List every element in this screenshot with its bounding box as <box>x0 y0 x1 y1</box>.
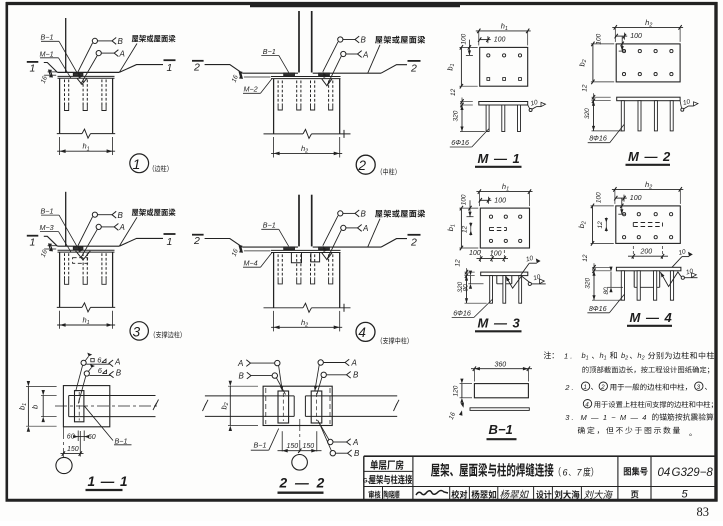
slot dimension 12 <box>605 218 608 223</box>
weld callout 10 upper M-4 <box>672 257 682 268</box>
plate B-1 right (2-2) <box>311 391 322 423</box>
dimension 100 top <box>480 39 491 41</box>
proofreader signature scrawl <box>500 490 529 499</box>
cell text single storey factory <box>370 460 403 470</box>
weld zigzag leader M-4 <box>661 272 682 287</box>
svg-text:M — 2: M — 2 <box>628 149 671 164</box>
svg-text:2: 2 <box>410 236 417 248</box>
svg-text:320: 320 <box>453 110 460 121</box>
hidden slot dashed <box>490 226 507 228</box>
svg-text:6: 6 <box>563 467 568 477</box>
svg-text:6Ф16: 6Ф16 <box>451 138 469 147</box>
hidden slot dashed <box>633 222 662 224</box>
svg-text:b1: b1 <box>445 63 456 70</box>
checker name <box>384 490 400 498</box>
section mark 1 right <box>164 59 176 61</box>
weld point B callout <box>338 211 343 216</box>
weld callout 10 lower M-3 <box>528 282 531 285</box>
anchor plate elevation <box>617 97 680 101</box>
svg-text:12: 12 <box>597 221 604 229</box>
svg-text:80: 80 <box>603 287 610 295</box>
dimension h2 <box>614 189 616 204</box>
anchor holes <box>622 50 625 53</box>
stud spacing dims 100 100 <box>479 250 481 262</box>
M-1 anchor plate plan outline <box>480 47 528 86</box>
left beam break mark <box>203 400 209 411</box>
column shaft outline <box>59 78 61 133</box>
dimension h1 <box>59 311 61 329</box>
svg-text:320: 320 <box>585 278 592 289</box>
weld callout 10 for M-2 <box>681 108 684 111</box>
svg-text:1: 1 <box>583 384 587 391</box>
svg-text:7: 7 <box>577 467 583 477</box>
section 1-1 column square <box>63 386 109 427</box>
svg-text:12: 12 <box>582 84 589 92</box>
dimension 100 upper-left <box>621 36 623 51</box>
plate B-1 left (2-2) <box>278 391 289 423</box>
detail 2 bubble <box>356 155 375 174</box>
M-4 anchor plate plan outline <box>616 206 681 244</box>
column break line <box>57 133 82 135</box>
svg-text:1: 1 <box>30 236 36 248</box>
dimension h1 <box>478 192 480 207</box>
slot dimension 12 <box>469 223 472 228</box>
dimension 80 rib depth M-4 <box>610 272 612 288</box>
svg-text:B−1: B−1 <box>115 436 128 445</box>
section mark 2 left <box>192 234 204 236</box>
weld callout B row <box>84 371 89 376</box>
right beam break mark <box>394 400 400 411</box>
svg-text:6: 6 <box>98 366 103 375</box>
slot dimension 200 <box>632 246 634 260</box>
dimension 60 60 <box>77 431 79 442</box>
notes line 4 <box>583 400 591 408</box>
column shaft outline <box>273 253 275 308</box>
svg-text:60: 60 <box>67 434 75 441</box>
svg-text:5: 5 <box>682 489 689 501</box>
svg-text:2: 2 <box>193 61 200 73</box>
cell text GJ roof truss-column connection <box>369 475 412 485</box>
svg-text:M−1: M−1 <box>40 49 54 58</box>
svg-text:320: 320 <box>584 108 591 119</box>
svg-text:G329−8: G329−8 <box>672 467 714 479</box>
svg-text:A: A <box>114 358 120 367</box>
svg-text:2: 2 <box>193 235 200 247</box>
detail 4 caption (braced center column) <box>381 337 409 344</box>
svg-text:B−1: B−1 <box>489 422 513 437</box>
weld callout B bottom-right <box>320 424 332 452</box>
dimension 100 upper-left <box>469 200 471 216</box>
roof beam outline left <box>205 65 243 74</box>
svg-text:M−2: M−2 <box>244 85 258 94</box>
label roof truss or roof beam <box>132 209 176 217</box>
svg-text:1: 1 <box>133 156 141 172</box>
svg-text:4: 4 <box>358 325 366 340</box>
label roof truss or roof beam <box>132 35 176 43</box>
M-3 detail truss vertical member <box>65 192 67 246</box>
gap dimension 16 <box>48 245 57 247</box>
roof beam outline right with kink <box>119 238 163 246</box>
column break line <box>57 306 82 308</box>
svg-text:GJ: GJ <box>363 478 372 485</box>
svg-text:B: B <box>118 211 124 220</box>
weld callout B top-right <box>321 372 326 377</box>
svg-text:b1: b1 <box>446 224 457 231</box>
svg-text:M — 4: M — 4 <box>630 310 673 325</box>
roof beam bottom flange line <box>57 71 119 73</box>
svg-text:8Ф16: 8Ф16 <box>589 134 607 143</box>
weld point B callout <box>92 212 97 217</box>
svg-text:100: 100 <box>494 37 506 44</box>
weld leader A to plate <box>76 365 83 391</box>
weld point A callout <box>96 224 101 229</box>
svg-text:4: 4 <box>585 402 589 409</box>
title block outer frame <box>364 455 716 457</box>
bearing pad plates <box>284 73 295 76</box>
svg-text:h1: h1 <box>83 316 90 327</box>
svg-text:10: 10 <box>678 248 687 257</box>
svg-text:A: A <box>119 49 125 58</box>
svg-text:B: B <box>116 369 122 378</box>
anchor plate elevation <box>479 102 528 106</box>
svg-text:2 .: 2 . <box>564 383 573 392</box>
section mark 2 left <box>192 60 204 62</box>
dimension 320 anchor length <box>461 105 463 132</box>
weld callout A top-right <box>318 360 323 365</box>
section mark 2 right <box>408 60 421 62</box>
svg-text:10: 10 <box>525 255 534 264</box>
anchor bars dashed <box>277 254 279 278</box>
column top plate <box>58 75 115 77</box>
svg-text:12: 12 <box>461 225 468 233</box>
roof beam outline right with kink <box>119 65 163 73</box>
svg-text:100: 100 <box>596 192 603 203</box>
svg-text:16: 16 <box>40 75 49 85</box>
hidden bracket tabs below plate <box>291 253 301 263</box>
dimension 120 <box>461 384 463 398</box>
svg-text:B−1: B−1 <box>263 47 276 56</box>
dimension 12 plate thickness <box>593 93 595 105</box>
dimension 12 plate thickness <box>466 268 468 280</box>
svg-text:A: A <box>352 438 358 447</box>
svg-text:100: 100 <box>494 197 506 204</box>
section 1-1 centerline vertical <box>62 427 64 458</box>
svg-text:120: 120 <box>453 385 460 396</box>
weld callout A row <box>81 360 86 365</box>
weld callout A bottom-right <box>318 420 330 440</box>
svg-text:100: 100 <box>630 33 642 40</box>
dimension 80 rib depth <box>470 276 472 284</box>
dimension 100 top <box>616 35 627 37</box>
section mark 2 right <box>408 234 421 236</box>
column break line <box>264 307 304 309</box>
weld V symbol <box>322 79 332 86</box>
svg-text:150: 150 <box>287 443 299 450</box>
svg-text:100: 100 <box>630 195 642 202</box>
svg-text:A: A <box>351 358 357 367</box>
cell label atlas number <box>624 467 648 476</box>
dimension b2 left <box>592 206 594 244</box>
plate B-1 in section <box>75 391 84 422</box>
svg-text:h2: h2 <box>645 18 652 29</box>
svg-text:04: 04 <box>658 467 671 479</box>
anchor bars dashed <box>64 80 66 106</box>
label B-1 with leader (1-1) <box>85 406 114 440</box>
svg-text:B: B <box>353 371 359 380</box>
dimension 16 strip <box>460 403 463 408</box>
M-1 detail truss vertical member <box>65 18 67 72</box>
weld V symbol at pad <box>76 251 91 260</box>
svg-text:2: 2 <box>358 158 367 173</box>
svg-text:h1: h1 <box>600 351 607 362</box>
axis bubble (2-2) <box>292 455 308 471</box>
svg-text:h2: h2 <box>645 180 652 191</box>
svg-text:12: 12 <box>450 88 457 96</box>
rib plate below <box>496 276 498 284</box>
svg-text:1 — 1: 1 — 1 <box>88 474 129 489</box>
detail 3 caption (braced edge column) <box>154 331 182 338</box>
svg-text:16: 16 <box>231 248 240 258</box>
anchor bars elevation <box>621 271 624 300</box>
cell label proof 校对 <box>451 490 467 499</box>
section 1-1 centerline horizontal <box>55 405 160 407</box>
svg-text:h1: h1 <box>83 142 90 153</box>
dimension 12 plate thickness <box>593 263 595 275</box>
right beam plan band <box>305 395 397 397</box>
beam break mark <box>153 400 159 411</box>
detail 2 caption (center column) <box>381 168 397 175</box>
axis bubble (1-1) <box>56 457 72 473</box>
svg-text:M−4: M−4 <box>244 259 258 268</box>
column top plate <box>58 249 115 251</box>
svg-text:100: 100 <box>461 33 468 44</box>
detail 1 caption (edge column) <box>153 165 169 172</box>
hidden support plate dashed box <box>73 258 88 264</box>
detail 1 bubble <box>130 154 149 173</box>
dimension 320 anchor length <box>466 276 468 304</box>
dimension b2 (2-2) <box>229 386 231 425</box>
anchor bars elevation <box>490 276 493 304</box>
designer name <box>555 490 580 499</box>
weld callout 10 for M-1 <box>529 109 532 112</box>
anchor bars elevation <box>621 101 624 131</box>
svg-text:1: 1 <box>167 236 173 248</box>
cell label page 页 <box>631 491 639 499</box>
dimension 320 anchor length <box>593 101 595 131</box>
M-2 anchor plate plan outline <box>616 44 680 82</box>
svg-text:1: 1 <box>30 63 36 75</box>
section 1-1 beam plan band <box>68 396 70 417</box>
dimension 320 anchor length <box>593 271 595 300</box>
svg-text:h2: h2 <box>301 318 308 329</box>
svg-text:3: 3 <box>133 324 141 339</box>
checker signature scrawl <box>416 491 448 496</box>
svg-text:6: 6 <box>97 355 102 364</box>
svg-text:100: 100 <box>596 33 603 44</box>
weld point A callout <box>341 225 346 230</box>
notes line 1 <box>544 351 554 359</box>
svg-text:12: 12 <box>455 259 462 267</box>
svg-text:b1: b1 <box>18 403 29 410</box>
dimension 100 upper-left <box>468 40 470 56</box>
svg-text:150: 150 <box>67 446 79 453</box>
dimension 12 plate thickness <box>461 98 463 110</box>
svg-text:A: A <box>119 223 125 232</box>
roof beam bottom flange line <box>57 245 119 247</box>
dimension 100 top <box>480 199 491 201</box>
dimension h2 <box>273 137 275 158</box>
svg-text:h2: h2 <box>637 351 644 362</box>
label roof truss or roof beam <box>375 210 425 218</box>
dimension h1 <box>478 31 480 46</box>
notes line 2 <box>582 366 709 373</box>
title block cell lines <box>364 470 413 472</box>
dimension b1 left <box>460 208 462 248</box>
svg-text:b: b <box>31 405 40 409</box>
dimension b1 left <box>27 387 29 427</box>
svg-text:200: 200 <box>640 248 653 255</box>
svg-text:M−3: M−3 <box>40 223 54 232</box>
svg-text:100: 100 <box>461 194 468 205</box>
anchor plate elevation <box>481 272 528 276</box>
section 2-2 column rectangle <box>263 386 332 425</box>
section mark 1 right <box>164 233 176 235</box>
svg-text:b2: b2 <box>577 59 588 66</box>
weld callout 10 lower M-4 <box>681 276 684 279</box>
anchor bars elevation <box>486 105 489 132</box>
column shaft outline <box>273 79 275 134</box>
section 2-2 hidden flange dashes <box>265 388 267 424</box>
weld V symbol at pad <box>77 78 87 84</box>
svg-text:6Ф16: 6Ф16 <box>453 309 471 318</box>
svg-text:M — 1: M — 1 <box>478 151 521 166</box>
anchor bars dashed <box>64 253 66 278</box>
svg-text:B−1: B−1 <box>41 33 54 42</box>
svg-text:M — 3: M — 3 <box>478 316 521 331</box>
anchor holes <box>623 213 626 216</box>
column shaft outline <box>59 252 61 307</box>
svg-text:2: 2 <box>410 63 417 75</box>
svg-text:M — 1 ~ M — 4: M — 1 ~ M — 4 <box>581 413 648 422</box>
svg-text:3 .: 3 . <box>565 413 573 422</box>
column top plate <box>271 249 341 251</box>
weld callout 10 upper M-3 <box>521 263 529 275</box>
weld leader B to plate <box>78 376 86 404</box>
weld point A callout <box>341 51 346 56</box>
svg-text:360: 360 <box>495 362 507 369</box>
rib plate below <box>633 271 635 288</box>
svg-text:16: 16 <box>40 249 49 259</box>
section mark 1 left <box>27 61 39 63</box>
cell label design 设计 <box>536 490 551 499</box>
roof beam bottom outline left <box>44 236 58 246</box>
gap dimension 16 <box>244 250 271 252</box>
svg-text:b2: b2 <box>621 351 628 362</box>
weld point A callout <box>96 51 101 56</box>
dimension h2 <box>273 311 275 332</box>
gap dimension 16 <box>244 76 271 78</box>
section 2-2 centerline <box>299 419 301 454</box>
section mark 1 left <box>27 235 39 237</box>
svg-text:10: 10 <box>533 274 542 283</box>
dimension h2 <box>614 27 616 42</box>
svg-text:2: 2 <box>600 384 605 391</box>
svg-text:2 — 2: 2 — 2 <box>279 476 327 491</box>
B-1 plate elevation <box>474 384 528 398</box>
svg-text:1 .: 1 . <box>564 351 572 360</box>
notes line 6 <box>578 427 680 434</box>
svg-text:h2: h2 <box>301 144 308 155</box>
roof beam outline right <box>313 246 381 248</box>
svg-text:100: 100 <box>469 250 481 257</box>
dimension h1 <box>59 137 61 155</box>
svg-text:h1: h1 <box>501 21 508 32</box>
roof beam bottom outline left <box>44 63 58 73</box>
anchor holes <box>489 215 492 218</box>
proofreader name <box>472 490 497 499</box>
svg-text:3: 3 <box>697 384 701 391</box>
svg-text:A: A <box>362 224 368 233</box>
M-3 anchor plate plan outline <box>480 208 529 248</box>
svg-text:10: 10 <box>685 268 694 277</box>
svg-text:150: 150 <box>303 443 315 450</box>
dimension b2 left <box>592 44 594 82</box>
detail 3 bubble <box>130 322 148 340</box>
M-2 detail column web plates <box>298 11 300 73</box>
anchor bars dashed <box>277 81 279 105</box>
main title roof truss roof beam weld connection <box>431 463 554 477</box>
roof beam outline right <box>313 72 381 74</box>
svg-text:A: A <box>362 50 368 59</box>
M-4 detail column web plates <box>298 195 300 247</box>
svg-text:b2: b2 <box>220 402 231 409</box>
anchor holes <box>487 54 490 57</box>
svg-text:h1: h1 <box>502 182 509 193</box>
svg-text:B: B <box>118 37 124 46</box>
weld point B callout <box>338 37 343 42</box>
left beam plan band <box>205 395 294 397</box>
svg-text:16: 16 <box>231 74 240 84</box>
svg-text:B: B <box>354 449 360 458</box>
svg-text:B: B <box>361 210 367 219</box>
svg-text:B−1: B−1 <box>41 207 54 216</box>
svg-text:16: 16 <box>448 411 457 421</box>
dimension 150 <box>79 431 81 457</box>
svg-text:1: 1 <box>167 62 173 74</box>
dimension 100 top <box>616 197 627 199</box>
designer signature scrawl <box>584 490 613 499</box>
dimension 100 upper-left <box>621 198 623 214</box>
dimension b left <box>42 396 44 417</box>
svg-text:B−1: B−1 <box>263 221 276 230</box>
svg-text:100: 100 <box>490 251 502 258</box>
column top plate <box>271 76 341 78</box>
weld point B callout <box>92 38 97 43</box>
roof beam outline left <box>205 239 243 248</box>
bearing pad plate <box>73 73 83 76</box>
dimension b1 left <box>460 47 462 86</box>
gap dimension 16 <box>48 71 57 73</box>
svg-text:A: A <box>237 359 243 368</box>
svg-text:b1: b1 <box>582 351 589 362</box>
svg-text:60: 60 <box>88 434 96 441</box>
B-1 plate plan strip <box>470 408 529 411</box>
label roof truss or roof beam <box>375 36 425 44</box>
weld V symbol <box>322 253 332 260</box>
svg-text:12: 12 <box>582 254 589 262</box>
column break line <box>264 133 304 135</box>
dimension 150 150 (2-2) <box>281 431 283 451</box>
